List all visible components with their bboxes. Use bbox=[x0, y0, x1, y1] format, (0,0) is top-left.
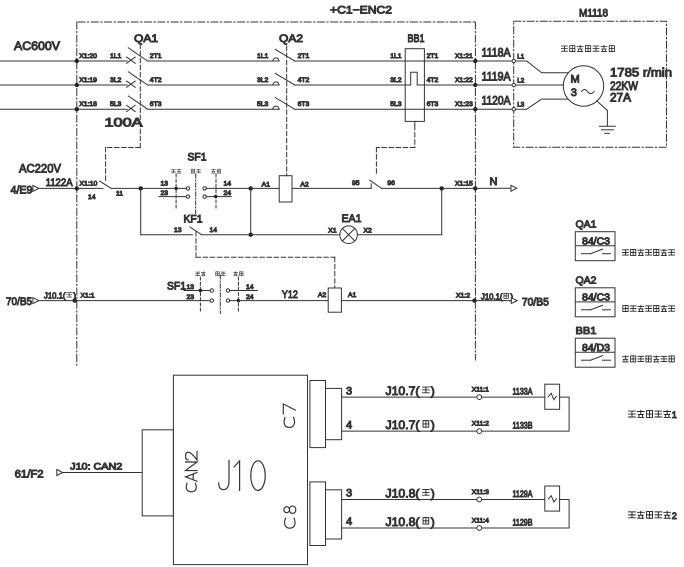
motor connector pin L2 bbox=[512, 77, 525, 86]
svg-text:KF1: KF1 bbox=[184, 214, 203, 226]
svg-text:23: 23 bbox=[161, 190, 169, 197]
wire Y12 to terminal X1:2 bbox=[341, 300, 474, 302]
selector switch SF1 designator (second) bbox=[167, 281, 186, 293]
label pin 6T3 QA2 bbox=[298, 101, 310, 108]
terminal X11:1 bbox=[472, 387, 489, 400]
breaker QA1 pole 3 X contact bbox=[127, 105, 136, 111]
svg-text:X1:15: X1:15 bbox=[455, 180, 473, 187]
legend QA2 sheet ref 84/C3 bbox=[582, 292, 610, 303]
svg-text:14: 14 bbox=[246, 284, 254, 291]
terminal X1:22 bbox=[455, 77, 477, 87]
svg-text:M: M bbox=[571, 74, 580, 86]
SF1-2 position line auto bbox=[237, 277, 239, 311]
svg-text:J10.8(: J10.8( bbox=[386, 486, 420, 500]
wire label J10.8( black bbox=[386, 515, 435, 529]
breaker QA1 pole 3 blade bbox=[128, 96, 147, 109]
wire CAN2 bus to connector bbox=[63, 472, 143, 474]
wire QA2 to BB1 heater phase L2 bbox=[294, 84, 411, 86]
svg-text:6T3: 6T3 bbox=[427, 101, 439, 108]
svg-text:A2: A2 bbox=[300, 181, 309, 188]
svg-text:1L1: 1L1 bbox=[390, 53, 402, 60]
legend QA1 sheet ref 84/C3 bbox=[582, 236, 610, 247]
terminal X1:2 bbox=[456, 293, 477, 303]
svg-text:5L3: 5L3 bbox=[257, 101, 269, 108]
motor M1118 circle bbox=[563, 66, 603, 106]
valve Y12 designator bbox=[282, 289, 298, 301]
relay KF1 linkage dashed to Y12 bbox=[196, 232, 335, 289]
svg-text:3: 3 bbox=[571, 87, 577, 99]
svg-text:1L1: 1L1 bbox=[257, 53, 269, 60]
svg-text:X2: X2 bbox=[364, 228, 373, 235]
wire label 1129B bbox=[513, 517, 533, 527]
label pin 2T1 QA2 bbox=[298, 53, 310, 60]
SF1 position line auto bbox=[215, 174, 217, 208]
terminal X11:3 bbox=[472, 489, 489, 502]
motor connector pin L1 bbox=[512, 53, 525, 62]
label pin 4T2 QA1 bbox=[150, 77, 162, 84]
svg-text:J10.1(: J10.1( bbox=[44, 290, 66, 300]
label pin 4T2 QA2 bbox=[298, 77, 310, 84]
svg-text:24: 24 bbox=[224, 190, 232, 197]
wire label 1133B bbox=[513, 421, 533, 431]
contactor QA2 pole 2 contact arc bbox=[273, 82, 279, 85]
label 27A bbox=[610, 92, 631, 104]
svg-text:14: 14 bbox=[88, 194, 96, 201]
breaker QA1 linkage dashed bbox=[139, 44, 141, 148]
wire branch down to KF1 bbox=[141, 188, 193, 234]
svg-text:N: N bbox=[490, 176, 498, 188]
connector C8 box bbox=[310, 482, 326, 546]
wire QA1 to QA2 phase L3 bbox=[147, 108, 279, 110]
wire label J10.8( blue bbox=[386, 486, 435, 500]
label M1118 bbox=[579, 8, 608, 20]
svg-text:BB1: BB1 bbox=[576, 325, 597, 337]
wire label J10.7( blue bbox=[386, 384, 435, 398]
terminal X11:4 bbox=[472, 518, 489, 531]
svg-text:): ) bbox=[431, 384, 435, 398]
SF1 contact 13-14 row bbox=[174, 187, 250, 190]
wire KF1 to EA1 bbox=[202, 233, 340, 237]
svg-text:70/B5: 70/B5 bbox=[6, 296, 32, 308]
svg-text:X11:4: X11:4 bbox=[472, 518, 489, 525]
wire QA2 through BB1 to terminal X1:21 bbox=[294, 60, 475, 62]
wire terminal to motor pin L1 bbox=[475, 60, 512, 62]
thermal relay BB1 designator bbox=[408, 33, 425, 45]
contactor QA2 linkage dashed to coil bbox=[286, 46, 288, 176]
label C8 rotated bbox=[284, 506, 296, 528]
svg-text:L1: L1 bbox=[517, 53, 525, 60]
label pin 3L2 BB1 bbox=[390, 77, 402, 84]
motor symbol M 3~ bbox=[571, 74, 595, 99]
breaker QA1 pole 1 blade bbox=[128, 48, 147, 61]
label pin 5L3 QA2 bbox=[257, 101, 269, 108]
connector CAN2 box bbox=[142, 430, 173, 516]
contactor QA2 designator bbox=[279, 33, 303, 45]
legend QA2 contact symbol bbox=[582, 305, 611, 310]
svg-text:1129B: 1129B bbox=[513, 517, 533, 527]
label pin 11 bbox=[116, 190, 123, 197]
svg-text:A2: A2 bbox=[318, 292, 327, 299]
wire pin4 to terminal X11:2 bbox=[342, 430, 477, 432]
controller J10 box bbox=[173, 375, 307, 564]
wire phase L3 input to QA1 bbox=[0, 107, 127, 111]
label pin 2T1 BB1 bbox=[427, 53, 439, 60]
svg-text:70/B5: 70/B5 bbox=[522, 297, 549, 309]
wire 4/E9 to QA1 aux contact bbox=[39, 187, 103, 189]
legend QA1 contact symbol bbox=[582, 249, 611, 254]
terminal X1:23 bbox=[455, 101, 477, 111]
legend BB1 box bbox=[575, 338, 615, 367]
svg-text:4/E9: 4/E9 bbox=[11, 185, 33, 197]
label J10 large bbox=[219, 460, 266, 490]
svg-text:5L3: 5L3 bbox=[110, 101, 122, 108]
wire phase L1 input to QA1 bbox=[0, 59, 127, 63]
svg-text:X1:1: X1:1 bbox=[81, 293, 95, 300]
label CAN2 rotated bbox=[186, 451, 198, 491]
svg-text:14: 14 bbox=[210, 227, 218, 234]
breaker QA1 aux contact 14-11 blade bbox=[100, 181, 112, 188]
contactor QA2 coil bbox=[279, 176, 292, 202]
SF1 contact 23-24 row bbox=[159, 195, 231, 198]
label pin 3 V1 bbox=[346, 385, 352, 397]
svg-text:1: 1 bbox=[672, 410, 677, 420]
label SF1-2 pin 14 bbox=[246, 284, 254, 291]
legend QA2 description (Chinese) bbox=[623, 305, 675, 311]
svg-text:1L1: 1L1 bbox=[110, 53, 122, 60]
terminal X11:2 bbox=[472, 421, 489, 434]
SF1-2 contact 23-24 row bbox=[210, 299, 240, 302]
wire N output bbox=[475, 187, 511, 189]
svg-text:14: 14 bbox=[224, 180, 232, 187]
label SF1 pin 13 bbox=[161, 180, 169, 187]
wire label 1133A bbox=[513, 387, 533, 397]
connector C8 pin housing bbox=[326, 490, 342, 539]
svg-text:): ) bbox=[431, 486, 435, 500]
wire phase L2 input to QA1 bbox=[0, 83, 127, 87]
wire label J10.7( black bbox=[386, 418, 435, 432]
svg-text:4T2: 4T2 bbox=[427, 77, 439, 84]
svg-text:13: 13 bbox=[174, 227, 182, 234]
connector C7 box bbox=[310, 381, 326, 448]
label SF1 pin 23 bbox=[161, 190, 169, 197]
wire to 70/B5 output arrow bbox=[475, 298, 518, 304]
svg-text:2: 2 bbox=[672, 511, 677, 521]
label AC220V bbox=[19, 161, 61, 175]
label pin 5L3 BB1 bbox=[390, 101, 402, 108]
lamp EA1 designator bbox=[342, 213, 362, 225]
svg-text:2T1: 2T1 bbox=[427, 53, 439, 60]
legend QA2 box bbox=[575, 288, 615, 317]
ground motor frame bbox=[597, 101, 616, 133]
svg-text:1119A: 1119A bbox=[482, 71, 511, 83]
svg-text:X1:21: X1:21 bbox=[455, 53, 473, 60]
label pin 3 V2 bbox=[346, 488, 352, 500]
SF1-2 position line manual bbox=[199, 277, 201, 311]
breaker QA1 pole 2 X contact bbox=[127, 81, 136, 87]
svg-text:X1:22: X1:22 bbox=[455, 77, 473, 84]
svg-text:QA1: QA1 bbox=[134, 33, 158, 45]
svg-text:J10.7(: J10.7( bbox=[386, 384, 420, 398]
svg-text:): ) bbox=[431, 418, 435, 432]
label pin 5L3 QA1 bbox=[110, 101, 122, 108]
SF1 position line manual bbox=[175, 174, 177, 208]
thermal relay BB1 NC contact 95-96 bbox=[370, 180, 382, 188]
motor connector pin L3 bbox=[512, 102, 525, 111]
svg-text:95: 95 bbox=[352, 180, 360, 187]
wire pin3 to terminal X11:3 bbox=[342, 499, 477, 501]
svg-text:3L2: 3L2 bbox=[390, 77, 402, 84]
label pin 4T2 BB1 bbox=[427, 77, 439, 84]
svg-text:13: 13 bbox=[161, 180, 169, 187]
label coil pin A2 bbox=[300, 181, 309, 188]
contactor QA2 pole 3 contact arc bbox=[273, 106, 279, 109]
terminal X1:1 bbox=[73, 293, 95, 303]
breaker QA1 designator bbox=[134, 33, 158, 45]
svg-text:1133A: 1133A bbox=[513, 387, 533, 397]
label coil pin A1 bbox=[262, 181, 271, 188]
wire motor lead L1 bbox=[515, 61, 568, 73]
source arrow 61/F2 bbox=[15, 468, 63, 480]
svg-text:X11:3: X11:3 bbox=[472, 489, 489, 496]
label pin 1L1 BB1 bbox=[390, 53, 402, 60]
wire label 1122A bbox=[46, 177, 74, 189]
wire label 1119A bbox=[482, 71, 511, 83]
terminal X1:10 bbox=[75, 180, 98, 201]
enclosure +C1-ENC2 dash-dot border bbox=[77, 22, 476, 366]
label lamp pin X2 bbox=[364, 228, 373, 235]
enclosure M1118 dash-dot box bbox=[514, 21, 667, 147]
svg-text:4: 4 bbox=[346, 419, 352, 431]
label SF1 pin 24 bbox=[224, 190, 232, 197]
selector switch SF1 designator bbox=[188, 152, 207, 164]
arrow N open bbox=[511, 185, 517, 191]
svg-text:1122A: 1122A bbox=[46, 177, 74, 189]
wire label J10.1 black bbox=[481, 292, 513, 302]
svg-text:1133B: 1133B bbox=[513, 421, 533, 431]
svg-text:6T3: 6T3 bbox=[150, 101, 162, 108]
legend QA1 designator bbox=[576, 219, 597, 231]
svg-text:L3: L3 bbox=[517, 102, 525, 109]
label C7 rotated bbox=[283, 404, 295, 428]
label 1785 r/min bbox=[610, 67, 672, 79]
svg-text:X1: X1 bbox=[328, 228, 337, 235]
wire valve return V2 bbox=[482, 500, 569, 529]
breaker QA1 aux linkage dashed bbox=[106, 148, 141, 181]
svg-text:4T2: 4T2 bbox=[298, 77, 310, 84]
legend BB1 designator bbox=[576, 325, 597, 337]
svg-text:X1:18: X1:18 bbox=[79, 101, 97, 108]
svg-text:2T1: 2T1 bbox=[298, 53, 310, 60]
svg-text:1120A: 1120A bbox=[482, 96, 511, 108]
thermal relay BB1 heater element bbox=[405, 72, 417, 85]
svg-text:QA1: QA1 bbox=[576, 219, 597, 231]
svg-text:X1:19: X1:19 bbox=[79, 77, 97, 84]
label N bbox=[490, 176, 498, 188]
svg-text:22KW: 22KW bbox=[610, 81, 638, 93]
source arrow 70/B5 input bbox=[6, 296, 39, 308]
label SF1 pin 14 bbox=[224, 180, 232, 187]
svg-text:11: 11 bbox=[116, 190, 123, 197]
contactor QA2 pole 1 contact arc bbox=[273, 58, 279, 61]
wire motor lead L3 bbox=[515, 99, 568, 109]
svg-text:23: 23 bbox=[187, 294, 195, 301]
svg-text:100A: 100A bbox=[105, 115, 144, 129]
wire SF1-2 to valve coil Y12 bbox=[230, 300, 329, 302]
wire 96 to terminal X1:15 bbox=[382, 186, 476, 190]
svg-text:13: 13 bbox=[187, 284, 195, 291]
wire label 1118A bbox=[482, 47, 511, 59]
legend QA2 designator bbox=[576, 275, 597, 287]
svg-text:3: 3 bbox=[346, 488, 352, 500]
terminal X1:15 bbox=[455, 180, 477, 190]
wire terminal to motor pin L2 bbox=[475, 84, 512, 86]
label SF1-2 pin 23 bbox=[187, 294, 195, 301]
svg-text:+C1−ENC2: +C1−ENC2 bbox=[330, 5, 392, 17]
svg-text:3L2: 3L2 bbox=[110, 77, 122, 84]
svg-text:X1:10: X1:10 bbox=[80, 180, 98, 187]
source arrow 4/E9 bbox=[11, 185, 39, 197]
svg-text:SF1: SF1 bbox=[188, 152, 207, 164]
svg-text:1118A: 1118A bbox=[482, 47, 511, 59]
label terminal X1:19 bbox=[79, 77, 97, 84]
wire QA1 aux to SF1 bbox=[111, 186, 186, 190]
label SF1-2 pin 24 bbox=[246, 294, 254, 301]
legend BB1 sheet ref 84/D3 bbox=[582, 343, 610, 354]
svg-text:SF1: SF1 bbox=[167, 281, 186, 293]
label pin 2T1 QA1 bbox=[150, 53, 162, 60]
node junction SF1 output bbox=[249, 186, 253, 190]
svg-text:2T1: 2T1 bbox=[150, 53, 162, 60]
wire pin4 to terminal X11:4 bbox=[342, 527, 477, 529]
contactor QA2 pole 3 blade bbox=[275, 98, 294, 109]
svg-text:AC600V: AC600V bbox=[14, 39, 60, 53]
label 70/B5 output bbox=[522, 297, 549, 309]
legend QA1 box bbox=[575, 232, 615, 261]
svg-text:1129A: 1129A bbox=[513, 489, 533, 499]
label pin 4 V2 bbox=[346, 516, 352, 528]
SF1-2 position line off bbox=[219, 275, 221, 314]
svg-text:5L3: 5L3 bbox=[390, 101, 402, 108]
label 22KW bbox=[610, 81, 638, 93]
svg-text:4T2: 4T2 bbox=[150, 77, 162, 84]
wire QA1 to QA2 phase L2 bbox=[147, 84, 279, 86]
label AC600V bbox=[14, 39, 60, 53]
svg-text:3L2: 3L2 bbox=[257, 77, 269, 84]
label grinding enable valve 1 (Chinese) bbox=[629, 410, 677, 420]
svg-text:27A: 27A bbox=[610, 92, 631, 104]
breaker QA1 pole 1 X contact bbox=[127, 57, 136, 63]
svg-text:3: 3 bbox=[346, 385, 352, 397]
wire pin3 to terminal X11:1 bbox=[342, 396, 477, 398]
svg-text:L2: L2 bbox=[517, 77, 525, 84]
svg-text:61/F2: 61/F2 bbox=[15, 468, 44, 480]
lamp EA1 bbox=[340, 226, 358, 244]
breaker QA1 rating 100A bbox=[105, 115, 144, 129]
breaker QA1 pole 2 blade bbox=[128, 72, 147, 85]
label pin 3L2 QA2 bbox=[257, 77, 269, 84]
wire label 1120A bbox=[482, 96, 511, 108]
connector C7 pin housing bbox=[326, 388, 342, 439]
wire valve return V1 bbox=[482, 397, 569, 431]
label pin 6T3 BB1 bbox=[427, 101, 439, 108]
svg-text:4: 4 bbox=[346, 516, 352, 528]
label pin 1L1 QA1 bbox=[110, 53, 122, 60]
SF1-2 position labels (Chinese) bbox=[196, 272, 243, 276]
legend BB1 contact symbol bbox=[582, 356, 611, 361]
svg-text:M1118: M1118 bbox=[579, 8, 608, 20]
label KF1 pin 13 bbox=[174, 227, 182, 234]
wire label J10.1 blue bbox=[44, 290, 76, 300]
label pin 1L1 QA2 bbox=[257, 53, 269, 60]
relay KF1 contact 13-14 blade bbox=[190, 227, 202, 235]
svg-text:Y12: Y12 bbox=[282, 289, 298, 301]
svg-text:J10.8(: J10.8( bbox=[386, 515, 420, 529]
wire junction vertical SF1 to EA1 row bbox=[250, 188, 252, 234]
svg-text:1785 r/min: 1785 r/min bbox=[610, 67, 672, 79]
svg-text:X1:2: X1:2 bbox=[456, 293, 470, 300]
wire terminal to motor pin L3 bbox=[475, 108, 512, 110]
valve Y12 coil bbox=[328, 288, 341, 312]
label Y12 pin A2 bbox=[318, 292, 327, 299]
SF1 position line off bbox=[195, 174, 197, 214]
contactor QA2 pole 1 blade bbox=[275, 49, 294, 60]
wire label 1129A bbox=[513, 489, 533, 499]
solenoid valve V2 bbox=[545, 486, 560, 511]
wire QA2 through BB1 to terminal X1:23 bbox=[294, 108, 475, 110]
solenoid valve V1 bbox=[545, 384, 560, 409]
SF1-2 contact 13-14 row bbox=[184, 289, 257, 292]
svg-text:X1:23: X1:23 bbox=[455, 101, 473, 108]
label grinding enable valve 2 (Chinese) bbox=[629, 511, 677, 521]
svg-text:X11:1: X11:1 bbox=[472, 387, 489, 394]
wire terminal to valve V1 bbox=[482, 396, 545, 398]
label Y12 pin A1 bbox=[348, 292, 357, 299]
svg-text:A1: A1 bbox=[262, 181, 271, 188]
svg-text:BB1: BB1 bbox=[408, 33, 425, 45]
svg-text:QA2: QA2 bbox=[279, 33, 303, 45]
wire motor lead L2 bbox=[515, 84, 563, 86]
label pin 6T3 QA1 bbox=[150, 101, 162, 108]
thermal relay BB1 linkage to contact 95-96 bbox=[376, 121, 414, 175]
svg-text:X11:2: X11:2 bbox=[472, 421, 489, 428]
svg-text:24: 24 bbox=[246, 294, 254, 301]
relay KF1 designator bbox=[184, 214, 203, 226]
svg-text:AC220V: AC220V bbox=[19, 161, 61, 175]
label terminal X1:20 bbox=[79, 53, 97, 60]
label pin 96 bbox=[387, 180, 395, 187]
legend QA1 description (Chinese) bbox=[622, 249, 674, 255]
label pin 4 V1 bbox=[346, 419, 352, 431]
contactor QA2 pole 2 blade bbox=[275, 73, 294, 84]
svg-text:J10: CAN2: J10: CAN2 bbox=[70, 462, 122, 473]
svg-text:84/C3: 84/C3 bbox=[582, 236, 610, 247]
svg-text:96: 96 bbox=[387, 180, 395, 187]
svg-text:J10.1(: J10.1( bbox=[481, 292, 503, 302]
svg-text:J10.7(: J10.7( bbox=[386, 418, 420, 432]
label J10: CAN2 bbox=[70, 462, 122, 473]
svg-text:84/C3: 84/C3 bbox=[582, 292, 610, 303]
svg-text:EA1: EA1 bbox=[342, 213, 362, 225]
legend BB1 description (Chinese) bbox=[622, 356, 674, 362]
wire terminal to valve V2 bbox=[482, 499, 545, 501]
SF1 position labels manual/off/auto (Chinese) bbox=[171, 169, 220, 173]
wire coil A2 to thermal contact 95 bbox=[292, 187, 371, 189]
label lamp pin X1 bbox=[328, 228, 337, 235]
label pin 3L2 QA1 bbox=[110, 77, 122, 84]
wire SF1 to contactor coil QA2 bbox=[251, 187, 280, 189]
svg-text:6T3: 6T3 bbox=[298, 101, 310, 108]
svg-text:QA2: QA2 bbox=[576, 275, 597, 287]
